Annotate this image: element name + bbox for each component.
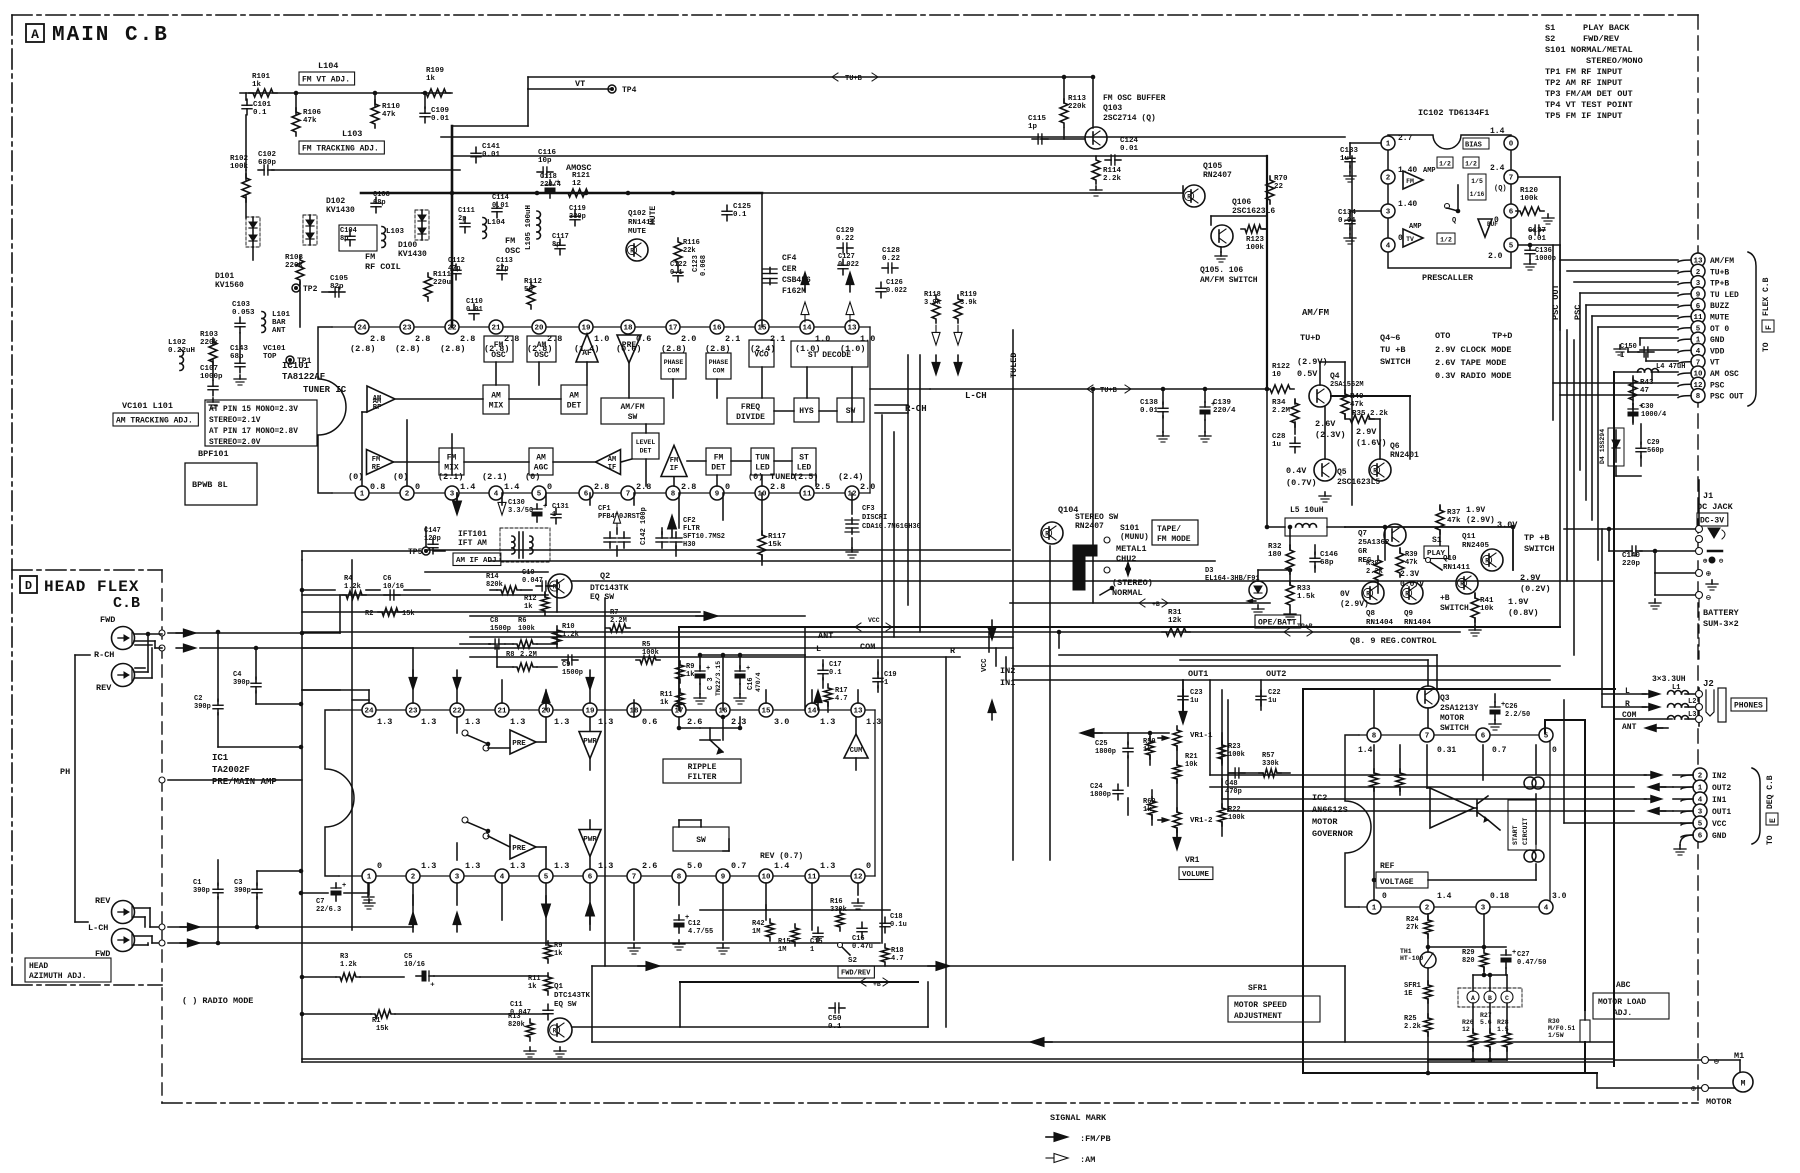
svg-text:R4: R4 — [344, 575, 352, 583]
svg-text:220u: 220u — [433, 279, 451, 287]
svg-text:R: R — [1485, 558, 1489, 565]
svg-text:AM/FM: AM/FM — [1302, 308, 1329, 318]
svg-text:0: 0 — [377, 861, 382, 871]
svg-text:( ) RADIO MODE: ( ) RADIO MODE — [182, 996, 253, 1006]
svg-text:RN2405: RN2405 — [1462, 542, 1490, 550]
svg-text:2.2M: 2.2M — [520, 651, 537, 659]
svg-text:2SC2714 (Q): 2SC2714 (Q) — [1103, 114, 1156, 123]
svg-text:R70: R70 — [1274, 175, 1288, 183]
svg-text:TP3 FM/AM DET OUT: TP3 FM/AM DET OUT — [1545, 89, 1633, 99]
connector J-E pin 3 OUT1 — [1693, 804, 1731, 818]
svg-text:C114: C114 — [492, 194, 509, 202]
svg-text:3: 3 — [450, 491, 455, 499]
below IC2 wires — [1428, 914, 1486, 1060]
svg-text:FM: FM — [494, 341, 504, 350]
svg-text:STEREO/MONO: STEREO/MONO — [1586, 56, 1643, 66]
ground Q106 — [1215, 247, 1227, 262]
IC101 pin 7 voltage — [636, 482, 651, 492]
capacitor C22 — [1256, 689, 1281, 706]
svg-text:REV: REV — [96, 683, 112, 693]
svg-text:4: 4 — [494, 491, 499, 499]
svg-text:2.7: 2.7 — [1398, 134, 1413, 143]
svg-text:OSC: OSC — [534, 351, 549, 360]
svg-text:DC-3V: DC-3V — [1700, 517, 1724, 526]
svg-text:D: D — [25, 579, 32, 593]
section label D HEAD FLEX C.B — [20, 576, 140, 612]
varactor D100 — [398, 210, 429, 259]
wire row y644 stub — [460, 643, 490, 645]
capacitor C50 — [828, 1003, 845, 1031]
resistor R122 — [1266, 363, 1294, 393]
svg-text:L101: L101 — [272, 311, 291, 319]
svg-text:C131: C131 — [552, 503, 569, 511]
svg-text:C16: C16 — [852, 935, 865, 943]
svg-text:C102: C102 — [258, 151, 277, 159]
svg-text:C134: C134 — [1338, 209, 1357, 217]
signal arrow down vcc — [988, 620, 996, 640]
svg-text:0.22: 0.22 — [836, 235, 855, 243]
svg-text:SUM-3×2: SUM-3×2 — [1703, 619, 1739, 629]
IC2 internal transistor — [1477, 796, 1488, 822]
connector J-F pin 9 TU LED — [1691, 287, 1739, 301]
wire row y657 long — [470, 656, 960, 658]
svg-text:82p: 82p — [330, 283, 344, 291]
svg-text:C.B: C.B — [113, 595, 140, 612]
svg-text:47: 47 — [1640, 387, 1649, 395]
node TP4 wire VT — [528, 79, 637, 95]
node TP5 — [408, 547, 430, 557]
svg-text:1: 1 — [810, 946, 814, 954]
transistor Q6 — [1369, 442, 1419, 481]
IC102 pin 2 — [1381, 170, 1395, 184]
svg-text:17: 17 — [668, 325, 677, 333]
svg-text:MUTE: MUTE — [649, 206, 658, 225]
connector J-F lead wires — [1678, 260, 1691, 398]
svg-text:Q102: Q102 — [628, 210, 647, 218]
svg-text::FM/PB: :FM/PB — [1080, 1134, 1111, 1144]
label STEREO SW RN2407 — [1075, 513, 1118, 531]
capacitor C8 — [489, 617, 511, 649]
wires to connector1 — [1553, 260, 1678, 395]
capacitor C119 — [569, 205, 586, 226]
svg-text:47k: 47k — [1405, 559, 1418, 567]
svg-text:TP4: TP4 — [622, 86, 637, 95]
IC1 pin 19 — [583, 703, 597, 717]
svg-text:12k: 12k — [1168, 617, 1182, 625]
label AMOSC — [566, 163, 592, 173]
svg-text:AM/FM SWITCH: AM/FM SWITCH — [1200, 276, 1258, 285]
svg-text:10k: 10k — [1185, 761, 1198, 769]
svg-text:3: 3 — [1386, 209, 1391, 217]
wire vertical x996 — [995, 648, 997, 666]
svg-text:Q106: Q106 — [1232, 198, 1251, 207]
svg-text:2.2M: 2.2M — [1272, 407, 1291, 415]
connector J-F pin 8 PSC OUT — [1691, 389, 1744, 403]
signal arrow down c22 — [409, 670, 417, 690]
svg-text:2.5: 2.5 — [815, 482, 830, 492]
svg-text:R11: R11 — [660, 691, 673, 699]
svg-text:RN2407: RN2407 — [1075, 522, 1104, 531]
svg-text:C109: C109 — [431, 107, 450, 115]
svg-text:HT-100: HT-100 — [1400, 955, 1424, 962]
svg-text:R109: R109 — [426, 67, 445, 75]
label Q4-6 TU+B SWITCH — [1380, 333, 1411, 367]
svg-text:R37: R37 — [1447, 509, 1461, 517]
IC1 internal transistor upper — [677, 715, 743, 754]
wire IC102 pin5 — [1518, 243, 1560, 248]
svg-text:8: 8 — [1372, 733, 1377, 741]
ANT block wires — [679, 627, 878, 712]
svg-text:AN6612S: AN6612S — [1312, 805, 1348, 815]
wires ic1 left caps — [302, 690, 369, 700]
svg-text:5: 5 — [544, 874, 549, 882]
wire tuner to Q105 y193 — [762, 186, 1183, 193]
svg-text:15: 15 — [761, 708, 771, 716]
svg-text:1: 1 — [884, 679, 888, 687]
signal arrow head1 — [176, 629, 196, 637]
IC101 internal wires — [362, 362, 852, 486]
svg-text:OT 0: OT 0 — [1710, 325, 1729, 334]
svg-text:D3: D3 — [1205, 567, 1213, 575]
svg-text:390p: 390p — [193, 887, 210, 895]
resistor R17 — [824, 684, 848, 706]
svg-text:R119: R119 — [960, 291, 977, 299]
svg-text:VOLTAGE: VOLTAGE — [1380, 878, 1414, 887]
TAPE/FM MODE box — [1152, 520, 1198, 545]
svg-text:VT: VT — [575, 79, 585, 89]
svg-text:(STEREO): (STEREO) — [1112, 578, 1153, 588]
IC101 pin 4 — [489, 486, 503, 500]
capacitor C11 — [510, 1001, 553, 1020]
IC2 pin 2 — [1420, 900, 1434, 914]
svg-text:IN1: IN1 — [1712, 796, 1727, 805]
capacitor C115 — [1028, 115, 1048, 144]
left cluster wires — [300, 581, 557, 644]
IC1 PWR amp lower — [579, 830, 601, 857]
svg-text:⊕: ⊕ — [1706, 570, 1711, 579]
IC101 pin 2 voltage — [393, 472, 420, 492]
svg-text:R106: R106 — [303, 109, 322, 117]
svg-text:LEVEL: LEVEL — [636, 439, 656, 446]
wire y966 arrows — [592, 962, 1345, 971]
svg-text:+B: +B — [1440, 594, 1450, 603]
svg-text:S101: S101 — [1120, 524, 1139, 533]
wire y550 long — [425, 549, 1010, 551]
wire IN1 route — [1013, 679, 1550, 681]
svg-text:C124: C124 — [1120, 137, 1139, 145]
svg-text:2.8: 2.8 — [770, 482, 785, 492]
svg-text:F: F — [1765, 325, 1774, 330]
svg-text:(0): (0) — [348, 472, 363, 482]
ground Q1a — [524, 1047, 536, 1057]
svg-text:R114: R114 — [1103, 167, 1122, 175]
svg-text:AT PIN 17 MONO=2.8V: AT PIN 17 MONO=2.8V — [209, 428, 298, 436]
svg-text:0.22uH: 0.22uH — [168, 347, 195, 355]
svg-text:C28: C28 — [1272, 433, 1286, 441]
svg-text:100k: 100k — [1246, 244, 1265, 252]
svg-text:2.6: 2.6 — [687, 717, 702, 727]
svg-text:22: 22 — [1274, 183, 1284, 191]
svg-text:PH: PH — [60, 767, 70, 777]
svg-text:MOTOR SPEED: MOTOR SPEED — [1234, 1001, 1287, 1010]
svg-text:(2.9V): (2.9V) — [1466, 516, 1495, 525]
svg-text:FM: FM — [714, 453, 724, 462]
capacitor C5 — [404, 953, 548, 986]
svg-text:22k: 22k — [683, 247, 696, 255]
svg-text:3.0: 3.0 — [774, 717, 789, 727]
svg-text:TU+B: TU+B — [1100, 387, 1118, 395]
svg-text:6: 6 — [588, 874, 593, 882]
resistor R31 — [1162, 609, 1190, 636]
coil L102 — [168, 339, 195, 371]
border frame top edge — [12, 14, 1698, 16]
svg-text:ABC: ABC — [1616, 981, 1631, 990]
svg-text:E: E — [1769, 818, 1778, 823]
svg-text:Q3: Q3 — [1440, 694, 1450, 703]
label TP +B SWITCH — [1524, 533, 1555, 554]
IC101 FM RF amp — [367, 450, 394, 475]
IC1 pin 14 — [805, 703, 819, 717]
svg-text:PRE: PRE — [512, 740, 526, 748]
svg-text:1k: 1k — [426, 75, 436, 83]
svg-text:COM: COM — [860, 642, 875, 652]
bus vertical x1614 thick — [1613, 372, 1615, 1066]
connector J-E bracket — [1752, 768, 1760, 844]
signal arrow up c20 — [542, 690, 550, 710]
svg-text:HEAD: HEAD — [29, 962, 48, 971]
signal arrow up filled b — [846, 272, 854, 292]
resistor R35 — [1346, 410, 1389, 423]
svg-text:MOTOR: MOTOR — [1440, 714, 1464, 723]
IC101 pin 12 — [845, 486, 859, 500]
IC2 pin 1 — [1367, 900, 1381, 914]
svg-text:8: 8 — [1696, 393, 1701, 401]
IC1 pin 11 voltage — [820, 861, 835, 871]
capacitor C122 — [670, 261, 687, 282]
svg-text:3×3.3UH: 3×3.3UH — [1652, 675, 1686, 684]
svg-text:0.01: 0.01 — [466, 306, 483, 314]
svg-text:1.0: 1.0 — [594, 334, 609, 344]
labels L R COM ANT — [1622, 687, 1637, 732]
svg-text:START: START — [1512, 825, 1519, 845]
svg-text:REV (0.7): REV (0.7) — [760, 852, 803, 861]
svg-text:TP1 FM RF INPUT: TP1 FM RF INPUT — [1545, 67, 1622, 77]
capacitor C147 — [424, 527, 441, 554]
J2 labels — [1652, 675, 1714, 689]
IC101 pin 3 voltage — [438, 472, 475, 492]
svg-text:L4 47uH: L4 47uH — [1656, 363, 1685, 371]
transistor Q11 — [1462, 533, 1503, 571]
svg-text:IF: IF — [670, 465, 678, 473]
svg-text:2.0: 2.0 — [860, 482, 875, 492]
svg-text:7: 7 — [626, 491, 631, 499]
coil L3 — [1668, 711, 1697, 719]
svg-text:470/4: 470/4 — [755, 672, 762, 692]
IC1 pin 9 — [716, 869, 730, 883]
wire vertical x1050 — [1049, 546, 1051, 860]
svg-text:CF3: CF3 — [862, 505, 875, 513]
label S101 MUNU — [1120, 524, 1149, 542]
misc mid verticals — [413, 627, 858, 703]
IC2 pin voltages top — [1358, 746, 1557, 755]
voltage 3.0V — [1497, 520, 1518, 530]
label L-CH — [965, 391, 987, 401]
capacitor C143 — [230, 345, 249, 373]
connector J-F bracket — [1748, 252, 1756, 406]
switch S2 FWD/REV — [838, 943, 875, 979]
svg-text:3.0: 3.0 — [1552, 892, 1567, 901]
label +B SWITCH — [1440, 594, 1469, 613]
svg-text:680p: 680p — [258, 159, 277, 167]
IC101 pin 14 voltage — [795, 334, 830, 354]
ceramic resonator CF4 — [763, 254, 811, 296]
transistor Q8 — [1362, 582, 1394, 627]
label R right — [950, 646, 956, 656]
IC2 pin 8 — [1367, 728, 1381, 742]
svg-text:ADJUSTMENT: ADJUSTMENT — [1234, 1012, 1282, 1021]
svg-text:TU +B: TU +B — [1380, 345, 1406, 355]
IC1 pin 18 — [627, 703, 641, 717]
svg-text:IC2: IC2 — [1312, 793, 1327, 803]
svg-text:FWD/REV: FWD/REV — [841, 970, 871, 978]
filter CF3 — [845, 505, 921, 534]
more ic1 bottom wires — [765, 905, 767, 910]
head flex box right edge — [161, 570, 163, 1103]
wire +B corner vertical — [679, 982, 681, 1027]
svg-text:R12: R12 — [524, 595, 537, 603]
IC2 pin 7 — [1420, 728, 1434, 742]
wire vertical x946 — [945, 657, 947, 1027]
svg-text:TU+D: TU+D — [1300, 333, 1320, 343]
connector J-F pin 7 VT — [1691, 355, 1720, 369]
svg-text:220/4: 220/4 — [1213, 407, 1236, 415]
svg-text:SWITCH: SWITCH — [1380, 357, 1411, 367]
wire vertical x882 — [881, 415, 883, 648]
IC2 START CIRCUIT box — [1508, 800, 1536, 850]
IC101 pin 4 voltage — [482, 472, 519, 492]
capacitor C127 — [838, 253, 859, 275]
border frame left edge — [11, 15, 13, 985]
IC1 pin 1 voltage — [377, 861, 382, 871]
signal arrow R — [1642, 703, 1660, 710]
svg-text:24: 24 — [357, 325, 367, 333]
svg-text:D102: D102 — [326, 197, 345, 206]
svg-text:0.7: 0.7 — [1492, 746, 1507, 755]
filter CF2 — [656, 517, 725, 549]
svg-text:2SA1562M: 2SA1562M — [1330, 381, 1364, 389]
resistor R24 — [1406, 916, 1432, 938]
resistor R118 — [924, 291, 941, 323]
svg-text:TUNER IC: TUNER IC — [303, 385, 347, 395]
capacitor C48 — [1225, 768, 1245, 796]
ABC terminals — [1458, 988, 1522, 1007]
svg-text:13: 13 — [853, 708, 863, 716]
svg-text:NORMAL: NORMAL — [1112, 588, 1143, 598]
IC2 internal amp — [1430, 788, 1474, 828]
node TP1 — [286, 356, 312, 366]
IC2 body outline — [1345, 735, 1550, 907]
wire y572 — [425, 571, 548, 573]
svg-text:820: 820 — [1462, 957, 1475, 965]
resistor R102 — [230, 155, 250, 202]
wire TU+B top line — [528, 73, 1093, 83]
voltage 2.9V 1.6V — [1356, 427, 1387, 448]
IC101 pin 16 voltage — [705, 334, 740, 354]
svg-text:1.4: 1.4 — [774, 861, 789, 871]
svg-text:6: 6 — [1698, 833, 1703, 841]
svg-text:C11: C11 — [510, 1001, 523, 1009]
svg-text:330p: 330p — [569, 213, 586, 221]
capacitor C138 — [1140, 387, 1169, 442]
svg-text:R: R — [1366, 591, 1370, 598]
svg-text:GND: GND — [1712, 832, 1727, 841]
svg-text:ANT: ANT — [272, 327, 286, 335]
capacitor C30 — [1628, 403, 1666, 422]
svg-text:J2: J2 — [1703, 679, 1714, 689]
resistor R4 — [342, 575, 366, 599]
label OUT1 — [1183, 669, 1208, 710]
svg-text:+: + — [1512, 949, 1516, 957]
svg-text:0.5V: 0.5V — [1297, 369, 1318, 379]
BPF101 block BPWB 8L — [185, 463, 257, 505]
voltage 0.4V 0.7V — [1286, 466, 1317, 488]
svg-text:D101: D101 — [215, 272, 234, 281]
svg-text:L5 10uH: L5 10uH — [1290, 506, 1324, 515]
IC1 pin 23 — [406, 703, 420, 717]
svg-text:2SA1213Y: 2SA1213Y — [1440, 704, 1479, 713]
svg-text:1: 1 — [367, 874, 372, 882]
svg-text:BAR: BAR — [272, 319, 286, 327]
IC101 SW block — [837, 398, 864, 422]
AM TRACKING ADJ box — [113, 413, 198, 426]
svg-text:VR1: VR1 — [1185, 856, 1200, 865]
motor wires — [1597, 1060, 1740, 1088]
svg-text:2.6: 2.6 — [642, 861, 657, 871]
resistor R11 — [660, 689, 684, 711]
capacitor C124 — [1105, 137, 1138, 165]
connector J-F pin 2 TU+B — [1691, 264, 1729, 278]
label VCC vertical — [981, 658, 989, 672]
svg-text:R7: R7 — [610, 609, 618, 617]
resistor R33 — [1286, 581, 1316, 609]
label VR1 VOLUME — [1179, 856, 1213, 880]
head wires lower — [134, 908, 158, 945]
svg-text:12: 12 — [1462, 1026, 1470, 1033]
svg-text:15k: 15k — [402, 610, 415, 618]
svg-text:PWR: PWR — [583, 836, 597, 844]
svg-text:TP +B: TP +B — [1524, 533, 1550, 543]
svg-text:1k: 1k — [554, 950, 562, 958]
connector J-E pin 2 IN2 — [1693, 768, 1727, 782]
svg-text:1/2: 1/2 — [1439, 161, 1451, 168]
svg-text:+B: +B — [873, 981, 881, 988]
svg-text:7: 7 — [632, 874, 637, 882]
resistor R120 — [1516, 187, 1554, 224]
svg-text:SWITCH: SWITCH — [1440, 604, 1469, 613]
svg-text:1.3: 1.3 — [820, 861, 835, 871]
IC102 pin 5 — [1504, 238, 1518, 252]
wire R-CH route — [875, 404, 908, 406]
svg-text:R1: R1 — [372, 1017, 380, 1025]
svg-text:TH1: TH1 — [1400, 948, 1412, 955]
IC101 pin 18 voltage — [616, 334, 651, 354]
signal arrow head3 — [180, 923, 200, 931]
svg-text:(Q): (Q) — [1494, 185, 1507, 193]
wire y1042 arrow — [592, 1038, 1614, 1047]
IC101 pin 6 — [579, 486, 593, 500]
wire row y648 long — [302, 647, 1013, 649]
IC102 half divider boxes — [1437, 157, 1479, 168]
